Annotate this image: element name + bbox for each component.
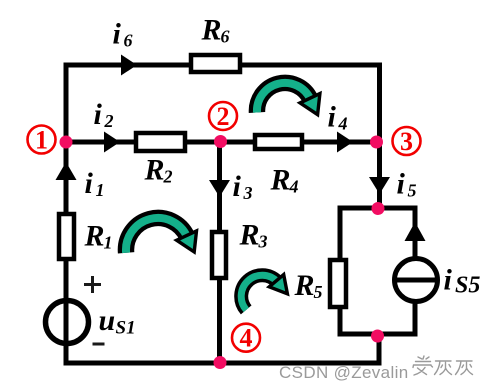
green loop arrow 2 (top mesh) bbox=[257, 83, 320, 115]
svg-text:4: 4 bbox=[289, 177, 299, 197]
svg-text:6: 6 bbox=[221, 27, 230, 47]
svg-text:R: R bbox=[239, 219, 260, 252]
node dot sub-loop top bbox=[372, 202, 385, 215]
current source iS5 horizontal bar bbox=[395, 278, 438, 283]
label i3 bbox=[233, 170, 253, 203]
green loop arrow 3 (bottom mesh) bbox=[241, 275, 287, 310]
wire middle horizontal node1-node2-node3 bbox=[65, 140, 380, 145]
svg-text:R: R bbox=[201, 14, 222, 47]
svg-text:1: 1 bbox=[104, 233, 113, 253]
svg-text:i: i bbox=[397, 168, 406, 201]
wire right vertical (top wire down through node3 to sub-loop) bbox=[377, 63, 382, 209]
svg-text:R: R bbox=[294, 269, 315, 302]
svg-text:4: 4 bbox=[240, 324, 253, 353]
wire sub-loop right vertical bbox=[413, 206, 418, 337]
resistor R1 (box) bbox=[59, 214, 74, 259]
label i4 bbox=[328, 101, 348, 134]
svg-text:3: 3 bbox=[400, 127, 413, 156]
label R2 bbox=[144, 154, 173, 187]
svg-text:6: 6 bbox=[124, 31, 133, 51]
wire middle branch vertical (node2 down through R3 to bottom) bbox=[217, 142, 222, 363]
watermark pseudo CJK glyph ai bbox=[413, 356, 433, 375]
resistor R3 (box) bbox=[212, 232, 226, 278]
resistor R4 (box) bbox=[255, 135, 302, 149]
label iS5 bbox=[444, 264, 481, 299]
arrow i2 (right) bbox=[104, 132, 120, 153]
svg-text:5: 5 bbox=[408, 181, 417, 201]
wire connector sub-loop bottom to main bottom bbox=[377, 334, 382, 363]
watermark pseudo CJK glyph hui bbox=[435, 361, 452, 375]
svg-text:CSDN @Zevalin: CSDN @Zevalin bbox=[279, 363, 409, 382]
svg-text:S1: S1 bbox=[116, 318, 136, 339]
label i1 bbox=[85, 167, 105, 200]
label R4 bbox=[270, 164, 299, 197]
node label circled 2 bbox=[209, 102, 237, 131]
current source iS5 (circle with horizontal bar) bbox=[395, 259, 438, 302]
arrow iS5 source (up) bbox=[405, 222, 426, 241]
resistor R6 (box) bbox=[191, 55, 240, 72]
svg-text:i: i bbox=[85, 167, 94, 200]
label uS1 bbox=[99, 304, 136, 339]
svg-text:i: i bbox=[113, 18, 122, 51]
svg-text:i: i bbox=[94, 98, 103, 131]
label i2 bbox=[94, 98, 114, 131]
uS1 minus sign bbox=[93, 343, 105, 346]
svg-text:i: i bbox=[328, 101, 337, 134]
svg-text:3: 3 bbox=[243, 183, 253, 203]
arrow i3 (down) bbox=[209, 180, 230, 197]
label i5 bbox=[397, 168, 417, 201]
svg-text:2: 2 bbox=[163, 167, 173, 187]
node label circled 4 bbox=[232, 324, 260, 353]
svg-text:1: 1 bbox=[35, 126, 48, 155]
resistor R2 (box) bbox=[136, 133, 185, 151]
watermark pseudo CJK glyph hui2 bbox=[456, 361, 473, 375]
node dot 3 bbox=[370, 136, 383, 149]
node dot 1 bbox=[60, 136, 73, 149]
wire sub-loop bottom bbox=[338, 332, 418, 337]
svg-text:R: R bbox=[144, 154, 165, 187]
label R6 bbox=[201, 14, 230, 47]
svg-text:u: u bbox=[99, 304, 116, 337]
wire sub-loop left vertical bbox=[338, 206, 343, 337]
node label circled 3 bbox=[393, 127, 421, 156]
label R1 bbox=[84, 220, 113, 253]
svg-text:R: R bbox=[84, 220, 105, 253]
node dot 2 bbox=[214, 135, 227, 148]
svg-text:R: R bbox=[270, 164, 291, 197]
wire left branch vertical (node1 down through R1 and uS1 to bottom) bbox=[64, 142, 69, 363]
svg-text:i: i bbox=[444, 264, 453, 297]
svg-text:1: 1 bbox=[96, 180, 105, 200]
arrow i1 (up) bbox=[56, 162, 77, 180]
voltage source uS1 (circle, wire passes through) bbox=[46, 301, 89, 344]
wire left vertical (node1 up to top wire) bbox=[64, 63, 69, 143]
wire top from node1 corner to node3 corner bbox=[65, 63, 382, 68]
arrow i5 (down) bbox=[369, 177, 390, 194]
arrow i4 (right) bbox=[337, 132, 353, 153]
resistor R5 (box) bbox=[330, 260, 346, 307]
label i6 bbox=[113, 18, 133, 51]
label R3 bbox=[239, 219, 268, 252]
wire bottom from left branch to right connector bbox=[64, 361, 382, 366]
node dot 4 (bottom wire) bbox=[214, 356, 227, 369]
svg-text:2: 2 bbox=[104, 111, 114, 131]
node label circled 1 bbox=[28, 126, 56, 155]
svg-text:4: 4 bbox=[338, 114, 348, 134]
uS1 plus sign bbox=[84, 276, 101, 293]
wire sub-loop top bbox=[338, 206, 418, 211]
svg-text:i: i bbox=[233, 170, 242, 203]
svg-text:S5: S5 bbox=[455, 273, 480, 299]
label R5 bbox=[294, 269, 323, 302]
green loop arrow 1 (left mesh) bbox=[126, 218, 197, 253]
svg-text:5: 5 bbox=[314, 282, 323, 302]
arrow i6 (right) bbox=[121, 55, 137, 76]
svg-text:2: 2 bbox=[217, 102, 230, 131]
node dot sub-loop bottom bbox=[371, 330, 384, 343]
svg-text:3: 3 bbox=[258, 232, 268, 252]
